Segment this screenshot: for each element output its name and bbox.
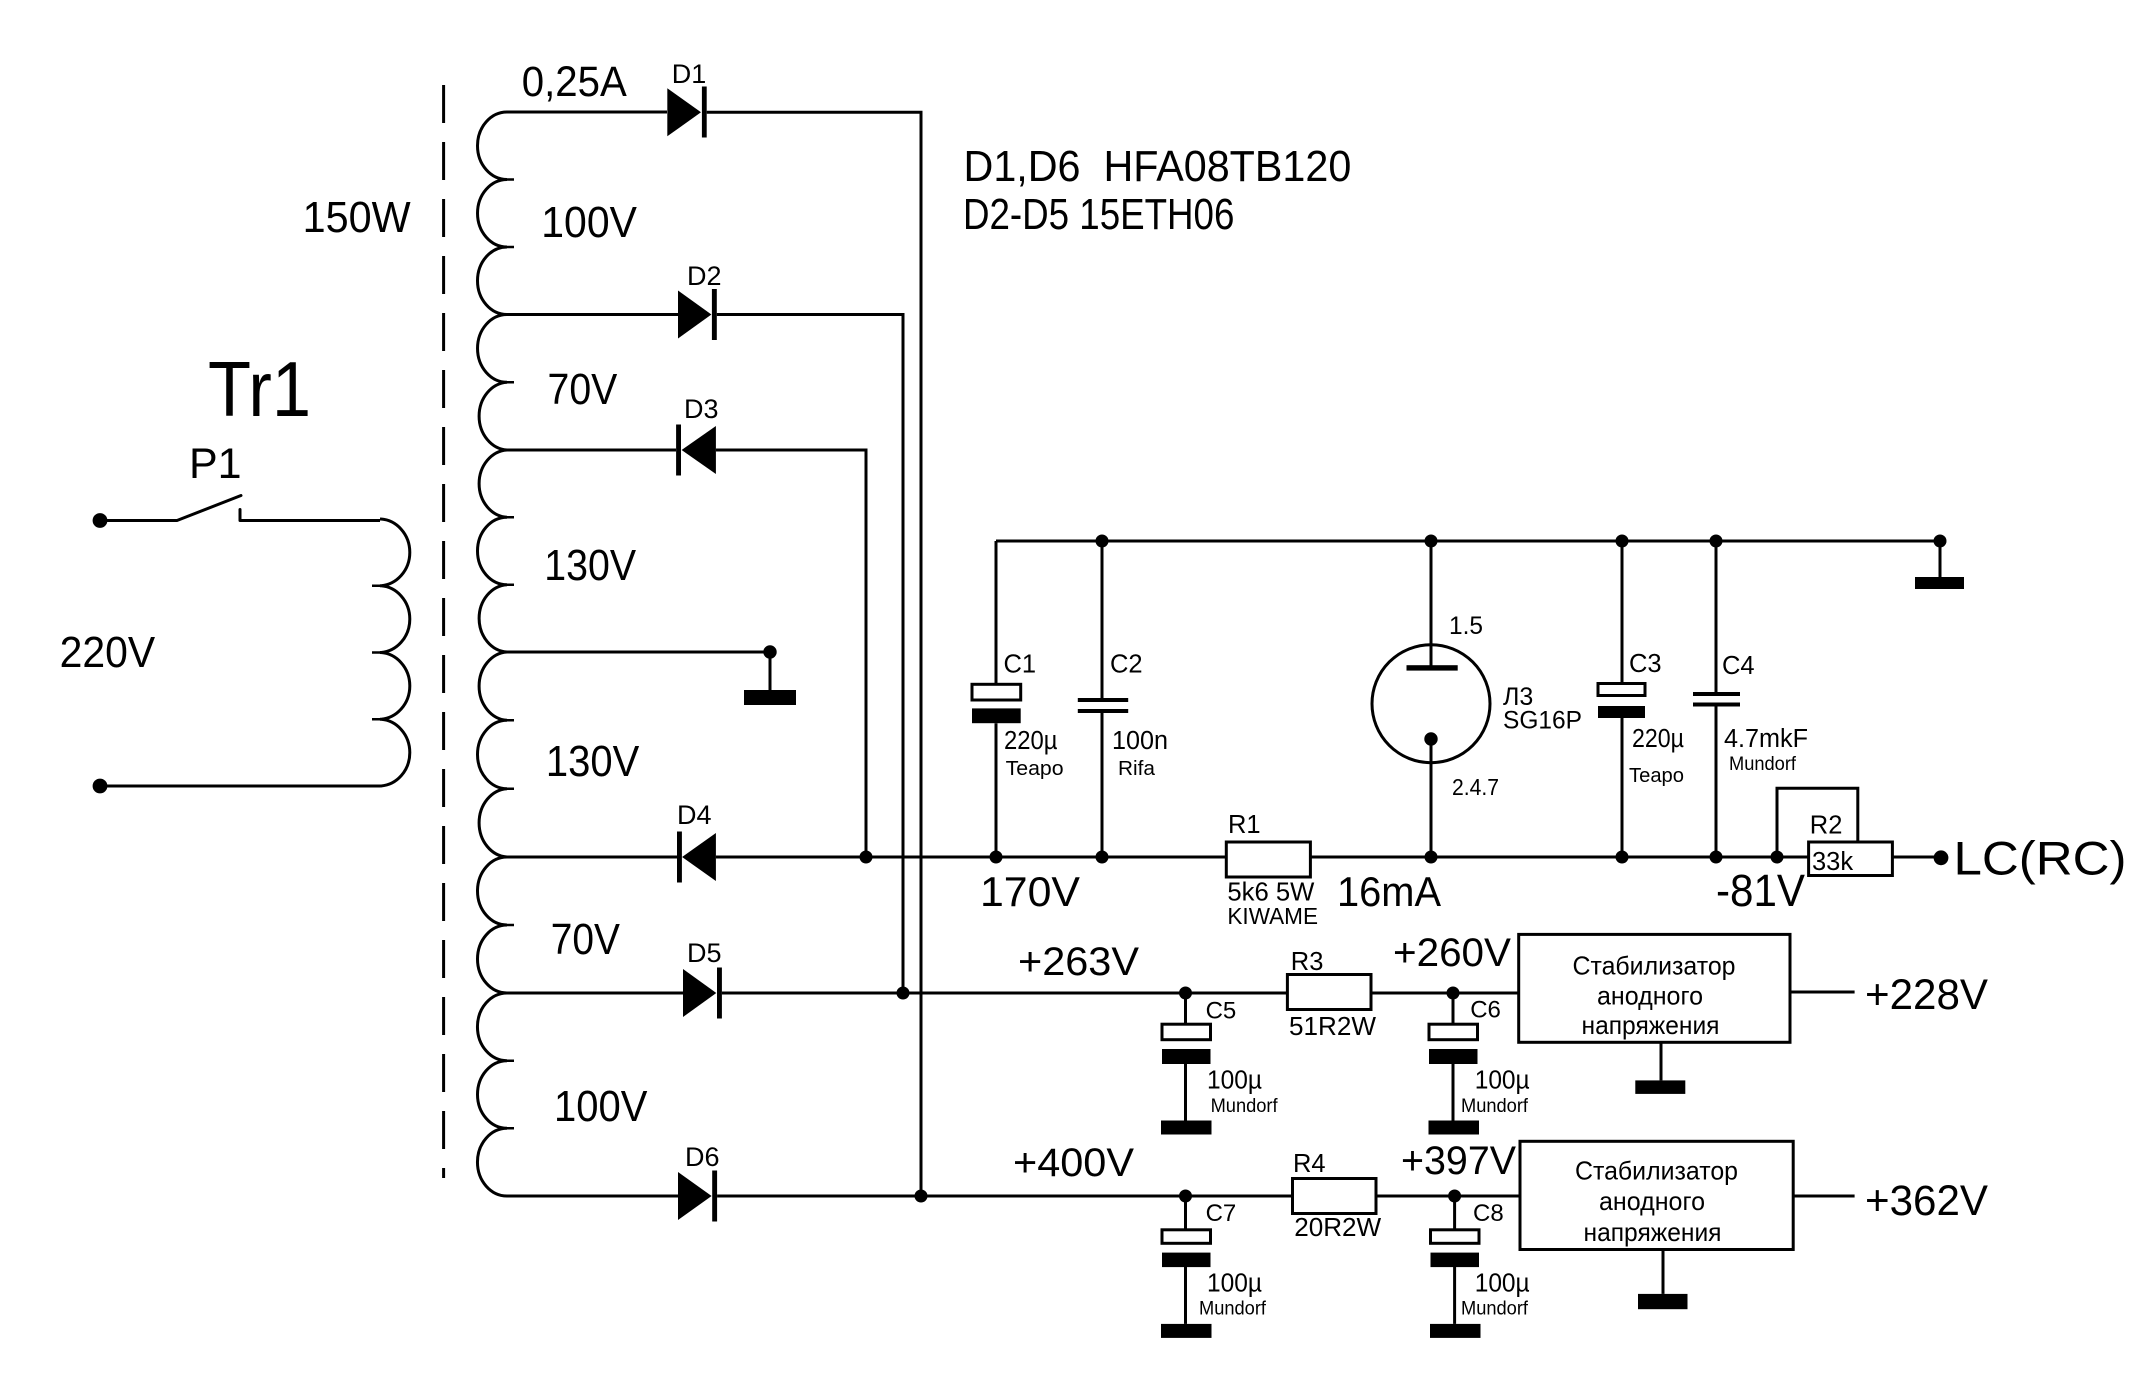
svg-text:анодного: анодного [1599, 1186, 1705, 1216]
svg-text:33k: 33k [1812, 848, 1853, 876]
svg-text:150W: 150W [303, 193, 411, 242]
wire: D2 cathode right then down to +263V rail [717, 315, 903, 994]
diode D3 [676, 425, 681, 476]
svg-text:100n: 100n [1112, 727, 1168, 755]
svg-text:-81V: -81V [1716, 865, 1806, 916]
svg-text:100µ: 100µ [1475, 1269, 1530, 1297]
capacitor C2 [1101, 541, 1104, 698]
capacitor C1 [995, 541, 998, 684]
svg-text:R4: R4 [1293, 1150, 1326, 1178]
svg-text:130V: 130V [546, 737, 640, 786]
svg-text:+228V: +228V [1865, 971, 1988, 1019]
svg-text:Teapo: Teapo [1629, 765, 1684, 787]
svg-text:100µ: 100µ [1207, 1067, 1262, 1095]
svg-text:D1,D6 HFA08TB120: D1,D6 HFA08TB120 [964, 142, 1352, 191]
svg-text:R1: R1 [1228, 811, 1261, 839]
svg-text:1.5: 1.5 [1449, 612, 1483, 640]
stabilizer box 1 [1519, 934, 1790, 1042]
node: D3 junction on -81V bus [860, 851, 873, 864]
resistor R4 [1293, 1179, 1377, 1214]
transformer Tr1 secondary winding [477, 112, 507, 1196]
svg-text:Стабилизатор: Стабилизатор [1573, 950, 1736, 980]
ground (stabilizer 1) [1660, 1042, 1663, 1080]
capacitor C4 [1715, 541, 1718, 692]
node: D2 junction on +263V rail [897, 987, 910, 1000]
svg-text:70V: 70V [551, 915, 621, 964]
wire: 70V tap to D5 [507, 992, 683, 995]
node: D1 junction on +400V rail [915, 1190, 928, 1203]
svg-text:C2: C2 [1110, 651, 1143, 679]
tube L3 cathode (pins 2.4.7) [1424, 732, 1437, 745]
ground (C5) [1161, 1121, 1212, 1135]
wire: top input to switch [107, 519, 177, 522]
svg-text:C8: C8 [1473, 1200, 1504, 1227]
wire: +263V rail from D5 to R3 [722, 992, 1288, 995]
svg-text:Teapo: Teapo [1006, 758, 1064, 780]
wire: D3 anode right then down to -81V bus [716, 450, 866, 857]
svg-text:170V: 170V [980, 868, 1080, 915]
svg-text:20R2W: 20R2W [1294, 1212, 1381, 1242]
wire: switch to primary winding [240, 519, 380, 522]
wire: R3 to stabilizer 1 [1371, 992, 1519, 995]
diode D1 [667, 88, 701, 136]
wire: 100V tap to D2 [507, 313, 678, 316]
svg-text:C3: C3 [1629, 650, 1662, 678]
diode D6 [678, 1172, 712, 1220]
svg-text:70V: 70V [548, 365, 618, 414]
resistor R1 [1226, 842, 1310, 877]
capacitor C6 [1447, 987, 1460, 1000]
svg-text:+362V: +362V [1865, 1177, 1988, 1225]
stabilizer box 2 [1520, 1141, 1793, 1249]
svg-text:C4: C4 [1722, 652, 1755, 680]
wire: stabilizer 1 output [1790, 991, 1855, 994]
svg-text:R3: R3 [1291, 948, 1324, 976]
wire: R1 to tube cathode node [1310, 856, 1808, 859]
svg-text:LC(RC): LC(RC) [1954, 831, 2127, 884]
ground (C6) [1429, 1121, 1480, 1135]
svg-text:анодного: анодного [1597, 981, 1703, 1011]
svg-text:+263V: +263V [1018, 940, 1139, 984]
wire: R4 to stabilizer 2 [1376, 1195, 1520, 1198]
svg-text:Tr1: Tr1 [208, 345, 311, 433]
ground (stabilizer 2) [1662, 1250, 1665, 1294]
wire: 100V tap to D6 [507, 1195, 678, 1198]
svg-text:SG16P: SG16P [1503, 707, 1582, 735]
svg-text:+400V: +400V [1013, 1141, 1134, 1185]
svg-text:напряжения: напряжения [1584, 1217, 1722, 1247]
svg-text:C5: C5 [1206, 998, 1237, 1025]
capacitor C8 [1448, 1190, 1461, 1203]
svg-text:100µ: 100µ [1207, 1269, 1262, 1297]
svg-text:D4: D4 [677, 800, 712, 830]
node: C3 bottom on -81V bus [1616, 851, 1629, 864]
svg-text:100µ: 100µ [1475, 1067, 1530, 1095]
wire: 130V tap to D4 [507, 856, 677, 859]
svg-text:4.7mkF: 4.7mkF [1724, 725, 1808, 753]
transformer Tr1 core (dashed line) [442, 85, 445, 1178]
svg-text:KIWAME: KIWAME [1227, 903, 1318, 929]
svg-text:P1: P1 [189, 440, 242, 488]
resistor R2 [1809, 842, 1893, 876]
resistor R3 [1287, 975, 1371, 1010]
switch P1 [177, 496, 241, 521]
svg-text:Mundorf: Mundorf [1211, 1096, 1279, 1117]
svg-text:Mundorf: Mundorf [1199, 1299, 1267, 1320]
svg-text:Стабилизатор: Стабилизатор [1575, 1156, 1738, 1186]
svg-text:R2: R2 [1810, 811, 1843, 839]
wire: -81V bus from D4 to R1 [716, 856, 1226, 859]
node: C4 bottom on -81V bus [1710, 851, 1723, 864]
diode D2 [678, 291, 711, 339]
svg-text:220V: 220V [60, 628, 156, 677]
wire: 0,25A winding to D1 [507, 111, 667, 114]
svg-text:100V: 100V [541, 198, 637, 247]
wire: bypass loop over R2 [1777, 788, 1858, 857]
wire: 70V tap to D3 [507, 449, 676, 452]
svg-text:Mundorf: Mundorf [1461, 1096, 1529, 1117]
svg-text:напряжения: напряжения [1582, 1010, 1720, 1040]
node: 220V input terminal bottom [93, 779, 108, 794]
svg-text:Mundorf: Mundorf [1729, 754, 1797, 775]
node: R2 bypass junction [1771, 851, 1784, 864]
tube L3 anode lead (pin 1.5) [1430, 541, 1433, 668]
svg-text:C6: C6 [1470, 997, 1501, 1024]
svg-text:D1: D1 [672, 59, 707, 89]
wire: primary bottom to lower terminal [107, 785, 380, 788]
wire: center tap to ground [507, 651, 770, 654]
svg-text:D2-D5 15ETH06: D2-D5 15ETH06 [963, 190, 1234, 239]
svg-text:0,25A: 0,25A [522, 58, 627, 106]
diode D4 [677, 832, 682, 883]
diode D5 [683, 969, 716, 1017]
wire: stabilizer 2 output [1793, 1195, 1854, 1198]
wire: ground bus (top) [996, 540, 1940, 543]
svg-text:Mundorf: Mundorf [1461, 1299, 1529, 1320]
node: 220V input terminal top [93, 513, 108, 528]
wire: +400V rail from D6 to R4 [717, 1195, 1292, 1198]
capacitor C3 [1621, 541, 1624, 684]
svg-text:51R2W: 51R2W [1289, 1011, 1376, 1041]
svg-text:C7: C7 [1206, 1200, 1237, 1227]
wire: D1 cathode right then down to +400V rail [707, 112, 921, 1196]
ground (top right) [1934, 535, 1947, 548]
capacitor C5 [1179, 987, 1192, 1000]
svg-text:D2: D2 [687, 261, 722, 291]
ground (center tap) [769, 652, 772, 690]
svg-text:100V: 100V [554, 1082, 648, 1131]
svg-text:D6: D6 [685, 1142, 720, 1172]
svg-text:D5: D5 [687, 938, 722, 968]
node: C2 bottom on -81V bus [1096, 851, 1109, 864]
svg-text:220µ: 220µ [1004, 727, 1058, 755]
svg-text:16mA: 16mA [1337, 868, 1441, 915]
ground (C7) [1161, 1324, 1212, 1338]
tube L3 envelope [1372, 645, 1490, 763]
node: LC(RC) output terminal [1934, 850, 1949, 865]
node: tube cathode on -81V bus [1425, 851, 1438, 864]
svg-text:2.4.7: 2.4.7 [1452, 774, 1499, 800]
svg-text:+397V: +397V [1401, 1139, 1516, 1183]
svg-text:C1: C1 [1004, 651, 1037, 679]
svg-text:Rifa: Rifa [1118, 758, 1156, 780]
node: center tap junction [763, 645, 776, 658]
capacitor C7 [1179, 1190, 1192, 1203]
wire: R2 to LC(RC) output [1892, 856, 1934, 859]
svg-text:+260V: +260V [1393, 931, 1511, 975]
transformer Tr1 primary winding [380, 519, 410, 786]
node: C1 bottom on -81V bus [990, 851, 1003, 864]
svg-text:220µ: 220µ [1632, 725, 1684, 753]
ground (C8) [1430, 1324, 1481, 1338]
svg-text:D3: D3 [684, 394, 719, 424]
svg-text:130V: 130V [544, 541, 636, 590]
